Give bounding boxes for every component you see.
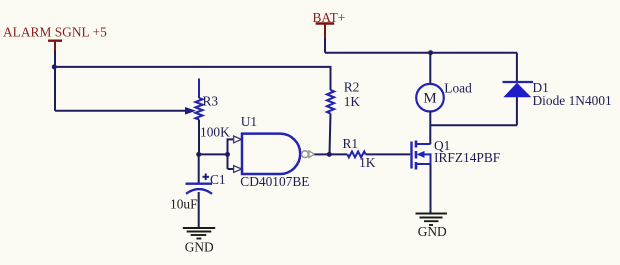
wire horizontal to R3 with arrowhead [55, 107, 196, 115]
svg-text:R3: R3 [203, 94, 219, 109]
resistor R3 [196, 79, 203, 155]
svg-text:10uF: 10uF [170, 196, 198, 211]
pin input arrow lower (pin 2) [234, 166, 242, 173]
svg-text:GND: GND [418, 224, 447, 239]
diode D1 [503, 53, 534, 126]
wire motor bottom to Q1 drain [429, 111, 431, 144]
wire vertical from junction down [54, 67, 56, 111]
capacitor C1 [186, 174, 213, 194]
port BAT+ [313, 10, 346, 38]
svg-text:ALARM SGNL +5: ALARM SGNL +5 [3, 25, 107, 40]
svg-text:1K: 1K [359, 155, 376, 170]
wire Q1 source to ground [430, 164, 432, 213]
node junction at ALARM bus [52, 64, 57, 69]
gate output pin arrow [309, 151, 315, 158]
pin input arrow upper (pin 1) [234, 136, 242, 143]
svg-text:R1: R1 [343, 136, 359, 151]
ground under Q1 [416, 214, 448, 226]
wire junction to R1 [329, 153, 347, 155]
node junction R3/C1/gate input [196, 152, 201, 157]
svg-text:GND: GND [185, 239, 214, 254]
wire junction to gate input tree [199, 153, 228, 155]
motor M1 circle [416, 84, 444, 112]
wire junction down to C1 [198, 154, 200, 183]
svg-text:100K: 100K [200, 124, 230, 139]
svg-text:Load: Load [444, 81, 472, 96]
resistor R2 [327, 90, 334, 154]
ground under C1 [183, 228, 215, 239]
resistor R1 [347, 152, 365, 158]
node junction motor top [428, 50, 433, 55]
node junction gate output / R2 / R1 [327, 152, 332, 157]
wire horizontal ALARM net to R2 top [55, 67, 331, 90]
transistor Q1 MOSFET [412, 141, 431, 170]
svg-text:R2: R2 [344, 80, 360, 95]
wire junction down to motor [429, 53, 431, 84]
svg-text:C1: C1 [210, 172, 226, 187]
port ALARM SGNL +5 [3, 25, 107, 52]
wire C1 to ground [198, 192, 200, 228]
wire gate input tree [228, 139, 235, 169]
svg-text:1K: 1K [344, 94, 361, 109]
wire from ALARM port down to junction [54, 51, 56, 67]
svg-text:M: M [423, 91, 436, 107]
wire bottom loop motor to diode [430, 124, 517, 126]
op-amp U1 NAND gate body [242, 134, 300, 174]
svg-text:Diode 1N4001: Diode 1N4001 [533, 93, 612, 108]
wire top rail BAT+ to diode [325, 52, 517, 54]
wire gate output to junction [314, 153, 329, 155]
wire BAT+ port down to top rail [324, 38, 326, 53]
wire R1 to Q1 gate [366, 153, 411, 155]
svg-text:U1: U1 [241, 114, 257, 129]
svg-text:CD40107BE: CD40107BE [240, 174, 309, 189]
node junction at gate input tree [225, 152, 230, 157]
gate output inversion bubble [302, 151, 309, 158]
svg-text:IRFZ14PBF: IRFZ14PBF [434, 150, 500, 165]
